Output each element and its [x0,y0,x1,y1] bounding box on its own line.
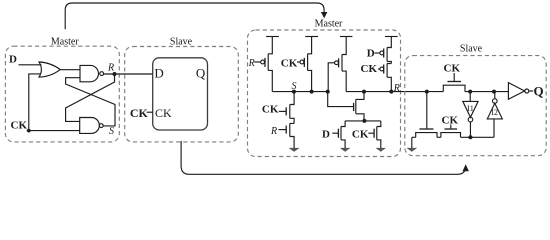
block 3 dashed border (transistor-level Master) [248,30,401,157]
D latch box U1 [153,58,208,130]
wire D to OR gate [19,64,42,66]
svg-text:I1: I1 [467,104,474,113]
or-gate G1 [39,62,60,77]
svg-text:Slave: Slave [170,37,193,48]
power VDD bar 4 [385,36,398,38]
svg-text:CK: CK [352,129,369,141]
svg-text:CK: CK [444,62,461,74]
ground 3 [376,148,387,152]
svg-text:Q: Q [534,83,544,98]
inverter I2 [493,119,495,137]
node bottom rail [412,136,494,138]
svg-text:Master: Master [51,37,79,48]
transistor N7 (pass NMOS, gate CK) on top rail [443,85,465,91]
wire feedback arrow from gate-level Master to transistor-level Master [65,3,324,29]
svg-text:R: R [270,126,277,137]
transistor P3 (PMOS, gate from S) [342,37,346,92]
svg-text:R: R [107,63,114,74]
svg-text:D: D [367,48,375,60]
node S rail [272,91,327,93]
svg-text:Slave: Slave [460,43,483,54]
node CK junction [27,129,31,133]
svg-text:S: S [109,126,114,137]
svg-text:Q: Q [196,66,206,81]
ground 1 [289,148,300,152]
svg-text:CK: CK [361,63,378,75]
transistor N3 (NMOS, gate from S) [356,92,364,121]
svg-text:CK: CK [442,114,459,126]
power VDD bar 1 [266,36,279,38]
svg-text:CK: CK [262,104,279,116]
block 4 dashed border (transistor-level Slave) [405,56,546,156]
power VDD bar 3 [340,36,352,38]
wire Slave bottom to transistor-level Slave with arrow [181,141,466,174]
transistor N4 (NMOS, gate D) [341,121,345,149]
node M rail [345,120,381,122]
wire N3 gate to node S [328,92,354,107]
transistor P4 (PMOS, gate D) [387,37,391,64]
wire S output and cross-coupling S to NAND2 input [66,78,115,126]
svg-text:CK: CK [155,106,172,120]
wire OR output to NAND1 [60,69,80,71]
svg-text:R: R [248,58,255,69]
transistor P1 (PMOS, gate R) [268,37,272,92]
transistor P5 (PMOS, gate CK) [387,64,391,92]
node R junction [113,72,117,76]
wire CK to latch [147,111,153,113]
wire CK branch up to OR gate input [29,74,41,131]
svg-text:D: D [154,66,163,81]
svg-text:R: R [393,83,400,94]
inverter I1 [469,92,471,102]
transistor N5 (NMOS, gate CK) [377,121,381,149]
wire top rail to inverter [465,91,508,93]
block 2 dashed border (gate-level Slave) [125,47,239,142]
svg-text:CK: CK [130,106,149,120]
ground 4 [411,137,413,149]
ground 2 [340,148,351,152]
svg-text:I2: I2 [491,108,498,117]
nand-gate G3 (S) [80,118,100,134]
node R tap junction [425,90,429,94]
transistor N2 (NMOS, gate R) [290,123,294,148]
svg-text:CK: CK [281,58,298,70]
svg-text:D: D [322,129,330,141]
wire P3 gate to node S [328,63,334,92]
node R rail [346,91,443,93]
svg-text:D: D [9,53,17,65]
inverter I3 (output) [508,83,524,100]
transistor N1 (NMOS, gate CK) [290,92,294,124]
transistor N6 (pass NMOS, gate from input rail) [426,92,428,129]
svg-text:CK: CK [11,120,28,132]
transistor P2 (PMOS, gate CK) [308,37,312,92]
power VDD bar 2 [305,36,318,38]
wire cross-coupling R to NAND3 input [66,74,115,121]
svg-text:Master: Master [315,19,343,30]
nand-gate G2 (R) [80,65,98,81]
block 1 dashed border (gate-level Master) [5,46,119,142]
wire CK to NAND2 [27,130,80,132]
wire R output to Slave D input [104,73,153,75]
